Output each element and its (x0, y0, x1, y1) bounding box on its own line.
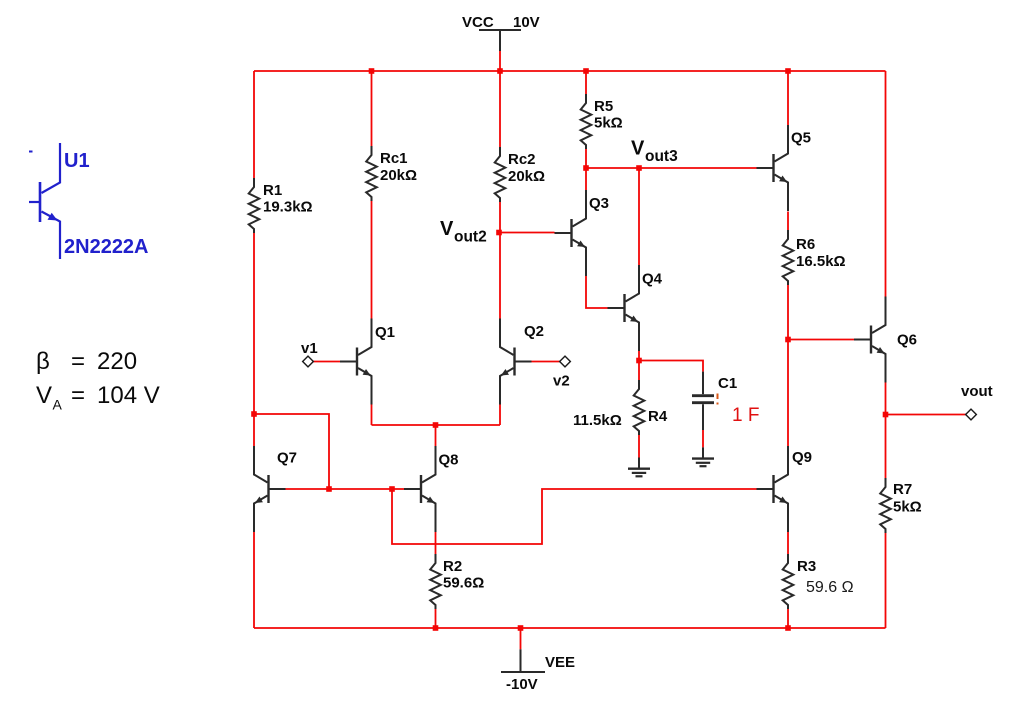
svg-text:R4: R4 (648, 408, 668, 425)
svg-text:59.6Ω: 59.6Ω (443, 575, 484, 592)
svg-text:-10V: -10V (506, 676, 538, 693)
svg-text:59.6 Ω: 59.6 Ω (806, 579, 854, 596)
svg-text:Q4: Q4 (642, 271, 663, 288)
svg-text:V: V (36, 382, 52, 409)
svg-text:β: β (36, 348, 50, 375)
svg-text:20kΩ: 20kΩ (508, 168, 545, 185)
svg-text:2N2222A: 2N2222A (64, 236, 149, 258)
svg-text:1 F: 1 F (732, 405, 759, 426)
svg-text:R5: R5 (594, 98, 613, 115)
svg-text:out3: out3 (645, 148, 678, 165)
svg-text:A: A (53, 397, 63, 413)
svg-text:R1: R1 (263, 182, 282, 199)
svg-text:Q2: Q2 (524, 323, 544, 340)
svg-text:V: V (631, 138, 645, 160)
svg-text:U1: U1 (64, 150, 90, 172)
svg-text:Q8: Q8 (439, 452, 459, 469)
svg-text:R2: R2 (443, 558, 462, 575)
svg-text:=: = (71, 348, 85, 375)
svg-text:v2: v2 (553, 373, 570, 390)
svg-text:Rc1: Rc1 (380, 150, 408, 167)
svg-text:10V: 10V (513, 14, 540, 31)
svg-text:11.5kΩ: 11.5kΩ (573, 412, 622, 429)
svg-text:16.5kΩ: 16.5kΩ (796, 253, 846, 270)
svg-text:V: V (440, 218, 454, 240)
svg-text:104 V: 104 V (97, 382, 160, 409)
svg-text:Q7: Q7 (277, 450, 297, 467)
svg-text:Q9: Q9 (792, 449, 812, 466)
svg-text:20kΩ: 20kΩ (380, 167, 417, 184)
svg-text:5kΩ: 5kΩ (594, 115, 623, 132)
svg-text:Q3: Q3 (589, 195, 609, 212)
svg-text:vout: vout (961, 383, 993, 400)
svg-text:5kΩ: 5kΩ (893, 499, 922, 516)
svg-text:R6: R6 (796, 236, 815, 253)
svg-text:220: 220 (97, 348, 137, 375)
svg-text:R3: R3 (797, 558, 816, 575)
svg-text:Q5: Q5 (791, 130, 811, 147)
svg-text:v1: v1 (301, 340, 318, 357)
svg-text:Rc2: Rc2 (508, 151, 536, 168)
svg-text:out2: out2 (454, 229, 487, 246)
svg-text:19.3kΩ: 19.3kΩ (263, 199, 313, 216)
svg-text:=: = (71, 382, 85, 409)
svg-text:VEE: VEE (545, 654, 575, 671)
svg-text:Q6: Q6 (897, 332, 917, 349)
svg-text:C1: C1 (718, 375, 737, 392)
svg-text:Q1: Q1 (375, 324, 395, 341)
svg-text:R7: R7 (893, 481, 912, 498)
svg-text:VCC: VCC (462, 14, 494, 31)
